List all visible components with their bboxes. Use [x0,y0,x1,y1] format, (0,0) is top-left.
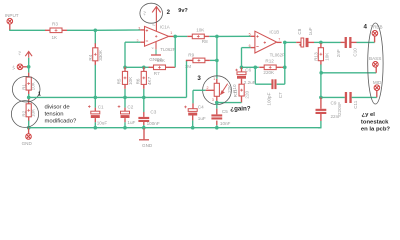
svg-text:tonestack: tonestack [361,119,389,125]
annotation ellipse 2 [140,3,163,23]
wire IC1B out to C8 [285,41,296,43]
wire node B column to pot [216,60,218,78]
TREB pad stub [374,36,376,42]
node C5 bottom junction [215,126,219,130]
wire mid row [125,66,144,68]
svg-text:C8: C8 [297,28,302,34]
ground symbol GND2 under IC1A [151,54,161,56]
svg-text:MID: MID [373,80,382,85]
svg-text:R13: R13 [314,52,319,61]
svg-text:1K: 1K [52,35,59,40]
wire node B down [216,36,218,60]
svg-text:10K: 10K [324,52,329,61]
svg-text:R7: R7 [154,71,160,76]
wire BASS [321,72,376,74]
node C6/R12 junction [240,66,244,70]
wire C10 to TREB [357,41,375,43]
node R2 bottom [27,126,31,130]
svg-text:divisor de: divisor de [45,105,71,111]
svg-text:3: 3 [212,98,214,102]
svg-text:R9: R9 [188,52,194,57]
pad GND [26,134,32,140]
svg-text:1uF: 1uF [127,120,135,125]
wire to C10 [321,41,341,43]
annotation circle 3 [203,76,232,105]
node R9 right junction [215,59,219,63]
pot wiper wire [193,89,206,91]
svg-text:¿y el: ¿y el [362,112,376,118]
svg-text:C4: C4 [198,104,204,109]
svg-text:¿gain?: ¿gain? [230,105,250,112]
svg-text:INPUT: INPUT [5,13,19,18]
node IC1A output [173,35,177,39]
resistor R12 [259,66,264,68]
wire R3 to node [67,29,95,31]
svg-text:GND: GND [22,141,33,146]
svg-text:3: 3 [197,75,201,82]
resistor R13 [320,42,322,44]
wire pin6 down [241,48,243,68]
svg-text:1: 1 [170,31,172,35]
svg-text:10nF: 10nF [220,121,231,126]
capacitor C2 [124,97,126,107]
wire output to R8 [175,35,187,37]
node divider mid [27,96,31,100]
wire pin2 to left [125,41,140,43]
capacitor C10 [341,41,345,43]
node C2 bottom [123,126,127,130]
wire output IC1B vertical [284,42,286,84]
svg-text:3: 3 [138,26,140,30]
pad MID [374,85,380,91]
wire input to R3 [9,29,45,31]
svg-text:2nF: 2nF [336,49,341,57]
node B junction [215,35,219,39]
svg-text:10K: 10K [31,81,36,90]
pad TREB [372,31,378,37]
pad V+ [17,64,23,70]
svg-text:1: 1 [213,77,215,81]
resistor R4 [94,30,96,44]
svg-text:+V: +V [143,11,147,16]
wire C8 to R13 node [314,41,321,43]
capacitor C1 [94,97,96,107]
svg-text:2: 2 [167,10,171,16]
node bias C2 [123,96,127,100]
wire down to mid row [124,42,126,67]
svg-text:1M: 1M [185,64,192,69]
svg-text:C6: C6 [245,68,251,73]
svg-text:R4: R4 [88,54,93,60]
resistor R7 [149,66,154,68]
resistor R9 [210,59,217,61]
capacitor C5 [216,103,218,109]
svg-text:7: 7 [278,37,280,41]
svg-text:C2: C2 [127,104,133,109]
svg-text:IC1B: IC1B [269,29,279,34]
svg-text:2.2uF: 2.2uF [244,80,256,85]
wire C11 to MID [352,96,377,98]
svg-text:C11: C11 [353,100,358,109]
node R13 top [319,41,323,45]
annotation circle 1b [11,101,38,128]
svg-text:4K7: 4K7 [147,76,152,85]
svg-text:R12: R12 [265,59,274,64]
svg-text:V+: V+ [152,23,156,27]
op-amp IC1A [145,26,169,46]
wire R2 to bottom rail [28,121,30,128]
svg-text:TL062P: TL062P [160,47,175,52]
svg-text:+V: +V [18,50,22,55]
wire C9 to bottom rail [318,121,321,128]
svg-text:C1: C1 [98,104,104,109]
svg-text:1uF: 1uF [198,116,206,121]
svg-text:R6: R6 [135,78,140,84]
wire output column vertical [174,36,176,67]
capacitor C7 path left [254,67,256,84]
V+ pad stub [23,66,29,68]
ground symbol under C3 [143,128,145,140]
svg-text:10K: 10K [31,108,36,117]
V+ arrow symbol left [25,52,32,58]
capacitor C8 [296,41,301,43]
svg-text:R3: R3 [52,22,58,27]
svg-text:R5: R5 [117,78,122,84]
svg-text:GND: GND [142,143,153,148]
GND pad stub [28,128,30,134]
resistor R1 [28,73,30,78]
capacitor C3 [143,97,145,112]
pot wiper pin [206,89,215,91]
pad BASS [373,62,379,68]
wire node to IC1A pin3 [95,29,140,31]
svg-text:TL062P: TL062P [270,53,285,58]
svg-text:C9: C9 [331,101,337,106]
node C4 bottom junction [191,126,195,130]
svg-text:BASS: BASS [369,56,381,61]
svg-text:C3: C3 [150,110,156,115]
svg-text:R1: R1 [21,84,26,90]
potentiometer R10 [216,79,218,84]
wire R8 to node B [209,35,217,37]
resistor R11 [241,79,243,85]
node input/R4 junction [94,29,98,33]
svg-text:22nF: 22nF [331,114,342,119]
capacitor C7 [271,79,273,89]
wire to C11 [321,96,345,98]
svg-text:58K: 58K [157,58,166,63]
node C9/C11 junction [319,96,323,100]
svg-text:1uF: 1uF [308,27,313,35]
annotation circle 1a [12,76,40,102]
node C7 left junction [254,66,258,70]
svg-text:220K: 220K [263,70,275,75]
wire bias rail [29,96,187,98]
svg-text:10K: 10K [196,28,205,33]
svg-text:330K: 330K [98,49,103,61]
svg-text:9v?: 9v? [178,8,188,14]
svg-text:10uF: 10uF [97,120,108,125]
node R13 bottom [320,64,322,72]
node R5 junction [123,66,127,70]
node IC1B output [283,41,287,45]
svg-text:R10: R10 [232,84,237,93]
svg-text:220: 220 [245,90,250,98]
wire input vertical [9,24,11,30]
capacitor C4 [192,103,194,108]
wire R7 to output column [171,66,176,68]
svg-text:4: 4 [364,23,368,30]
svg-text:2: 2 [207,86,209,90]
wire C7 right [277,83,285,85]
pot adjust arrow [221,84,228,95]
wire R1 to bias node [28,94,30,97]
resistor R6 [143,67,145,72]
annotation ellipse 4 [368,23,383,104]
wire arrow to junction [28,58,30,73]
node bias C3 [142,96,146,100]
resistor R3 [45,29,50,31]
wire R13 node down to MID row [320,73,322,98]
wire IC1B pin6 left [242,47,251,49]
svg-text:220nF: 220nF [337,102,342,115]
wire ground rail [29,127,321,129]
svg-text:100pF: 100pF [266,92,271,105]
svg-text:en la pcb?: en la pcb? [361,126,391,132]
svg-text:10K: 10K [128,76,133,85]
svg-text:modificado?: modificado? [45,118,77,124]
V+ pin line IC1A [155,21,157,32]
svg-text:C7: C7 [278,92,283,98]
wire R11 to pot junction [241,96,243,103]
capacitor C11 [345,92,347,103]
V+ arrow symbol (9V supply) [152,7,160,21]
resistor R5 [124,67,126,72]
wire to C7 junction [242,66,256,68]
wire node B to IC1B pin5 [217,35,251,37]
node bias C1 [94,96,98,100]
svg-text:R8: R8 [202,39,208,44]
svg-text:V-: V- [152,46,155,50]
capacitor C9 [320,97,322,108]
svg-text:IC1A: IC1A [160,25,170,30]
node R12 right junction [283,66,287,70]
svg-text:5: 5 [249,33,251,37]
node R6 junction [142,66,146,70]
svg-text:C10: C10 [353,48,358,57]
op-amp IC1B [255,31,277,53]
node C1 bottom [94,126,98,130]
svg-text:tension: tension [45,111,64,117]
node V+ junction [27,65,31,69]
resistor R8 [187,35,192,37]
svg-text:R2: R2 [21,110,26,116]
svg-text:100nF: 100nF [147,121,160,126]
wire R4 to bias rail [94,65,96,98]
capacitor C6 [241,67,243,72]
wire R12 to output node [281,66,285,68]
svg-text:V+: V+ [12,64,16,70]
V- pin line IC1A [155,42,157,50]
wire R9 left down to bias rail [187,60,189,61]
MID pad stub [376,90,378,97]
svg-text:C5: C5 [222,109,228,114]
node pot bottom junction [215,101,219,105]
resistor R2 [28,97,30,99]
node C3 bottom [142,126,146,130]
